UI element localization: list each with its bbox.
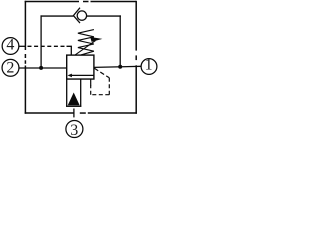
junction node at port 2 branch: [39, 66, 43, 70]
adjustment arrow through spring: [75, 41, 95, 55]
svg-text:1: 1: [145, 57, 153, 74]
port 3 circle: [66, 121, 83, 138]
outlet wire from valve box to port 1: [94, 66, 141, 67]
pilot line dashed vertical: [108, 78, 110, 95]
enclosure bottom edge: [25, 112, 137, 114]
pilot line dashed horizontal: [91, 94, 110, 96]
port 2 wire to valve box: [19, 67, 67, 69]
wire branch up from junction: [40, 15, 42, 68]
spring: [78, 30, 94, 55]
wire branch down to outlet line: [119, 15, 121, 66]
port 2 circle: [2, 59, 19, 76]
svg-text:2: 2: [6, 60, 14, 77]
port 4 circle: [2, 38, 19, 55]
check valve seat: [73, 8, 80, 23]
pilot line from port 4 (dashed): [28, 45, 67, 47]
tank channel right wall: [80, 79, 82, 106]
enclosure top edge: [25, 1, 137, 3]
junction node at outlet line: [118, 65, 122, 69]
pilot stub solid into box bottom: [90, 79, 92, 86]
tank channel bottom: [66, 105, 81, 107]
flow arrow inside valve box: [71, 74, 95, 76]
check valve poppet circle: [77, 11, 86, 20]
valve box: [67, 55, 94, 79]
flow triangle to tank: [68, 93, 80, 106]
pilot line elbow to valve box top: [67, 46, 72, 55]
enclosure right edge: [135, 1, 137, 114]
port 4 stub wire: [19, 45, 26, 47]
port 1 circle: [141, 59, 157, 75]
pilot line from outlet port of box (dashed diagonal): [94, 68, 109, 78]
svg-text:3: 3: [70, 122, 78, 139]
port 3 stub wire (dashed crossing enclosure): [73, 109, 75, 118]
enclosure left edge: [24, 1, 26, 114]
wire to check valve: [41, 15, 74, 17]
wire from check valve to right branch: [87, 15, 121, 17]
pilot line dashed up to box bottom: [90, 85, 92, 95]
svg-text:4: 4: [6, 36, 14, 53]
tank channel left wall: [66, 79, 68, 106]
